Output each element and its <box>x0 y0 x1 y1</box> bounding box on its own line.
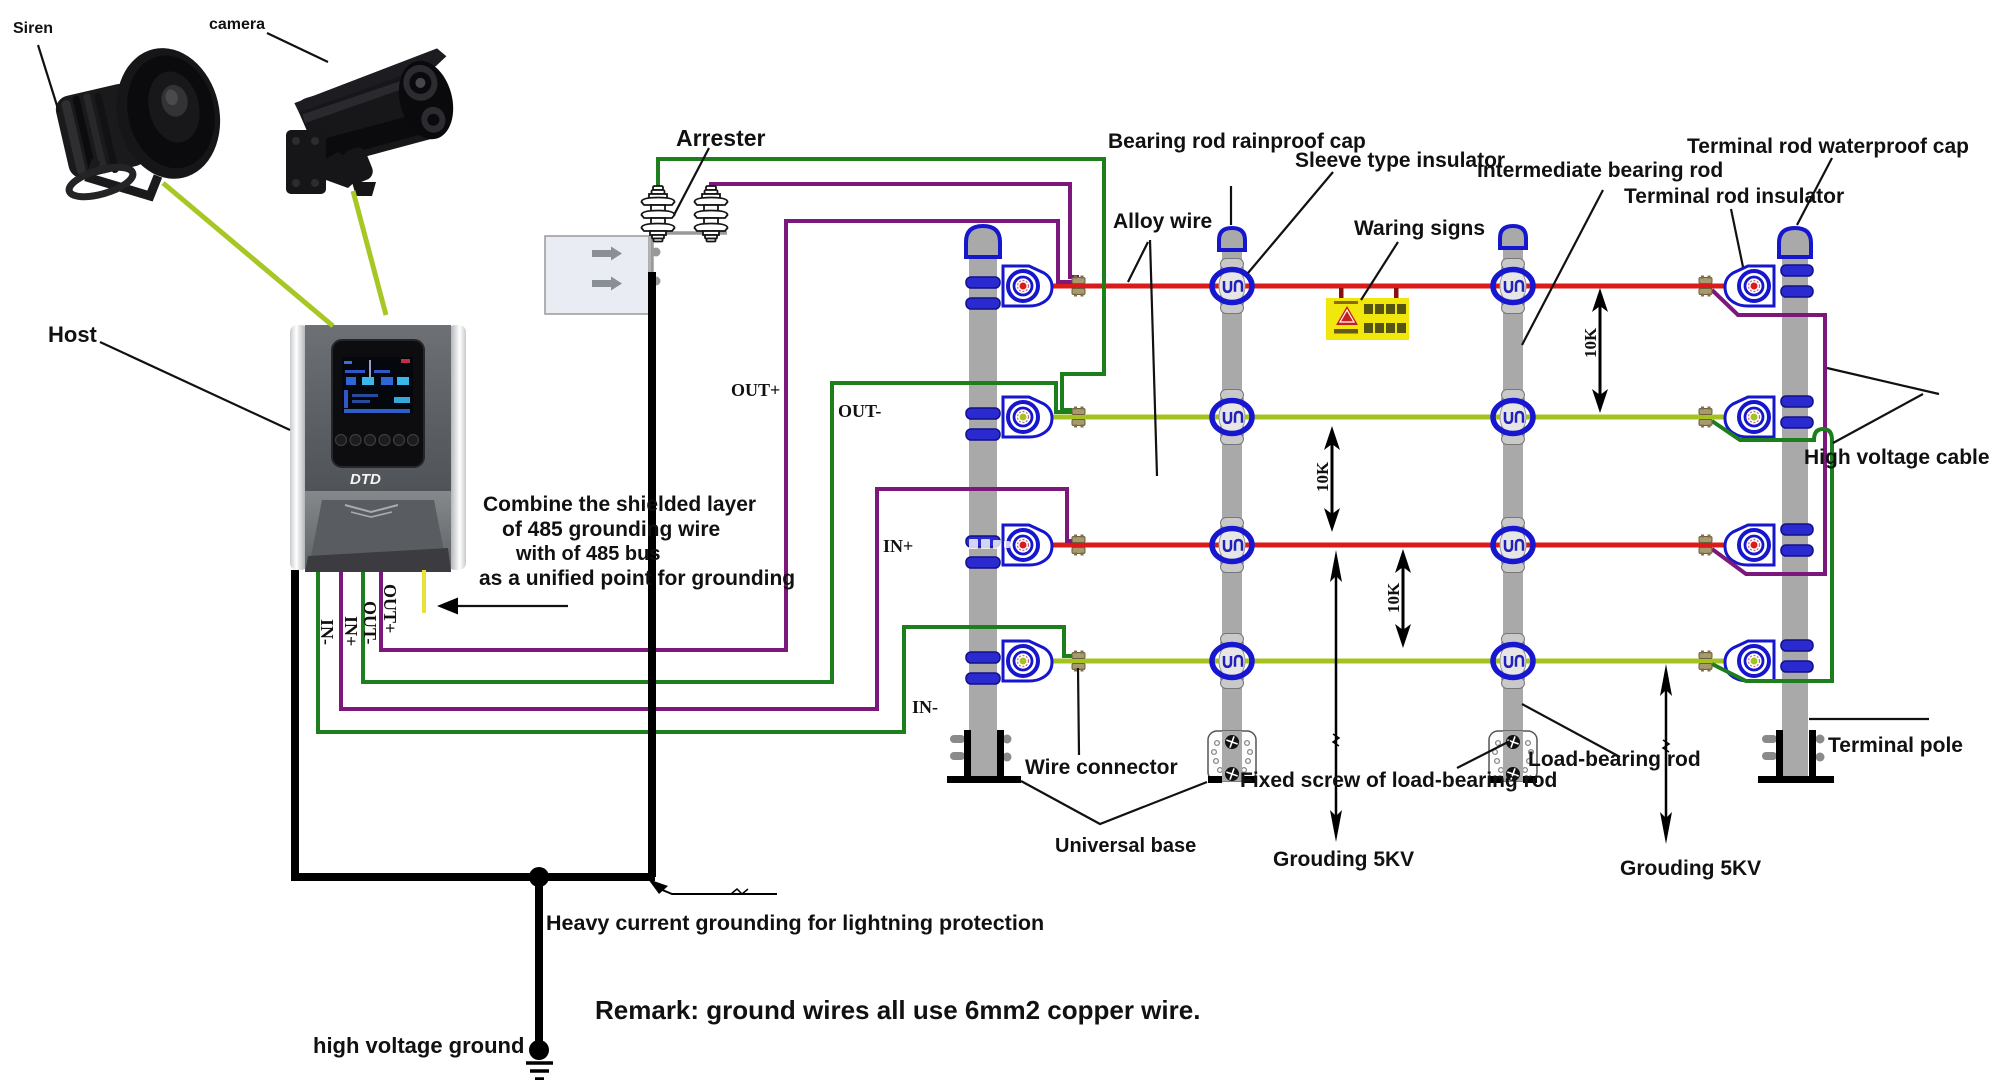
terminal pole 4 <box>1782 257 1808 777</box>
sleeve type insulator pole3 row2 <box>1493 390 1533 445</box>
alloy wire row 3 (red) <box>1021 543 1746 548</box>
terminal rod insulator pole1 row2 <box>1003 397 1052 437</box>
svg-text:Host: Host <box>48 322 98 347</box>
svg-text:Terminal rod insulator: Terminal rod insulator <box>1624 185 1844 208</box>
leader Arrester <box>674 148 709 215</box>
terminal rod insulator pole1 row3 <box>1003 525 1052 565</box>
svg-text:IN-: IN- <box>912 697 938 717</box>
svg-text:OUT-: OUT- <box>838 401 881 421</box>
leader camera <box>267 33 328 62</box>
leader Sleeve type insulator <box>1248 172 1333 273</box>
svg-text:high voltage ground: high voltage ground <box>313 1033 524 1058</box>
pole 4 waterproof cap <box>1779 228 1811 257</box>
sleeve type insulator pole2 row3 <box>1212 518 1252 573</box>
svg-text:Universal base: Universal base <box>1055 835 1196 857</box>
intermediate pole 3 <box>1503 248 1523 777</box>
pole1 clamp bars row1 <box>966 277 1000 684</box>
leader Load-bearing rod <box>1522 704 1620 757</box>
universal base pole4 <box>1758 730 1834 783</box>
wire IN+ purple from host <box>341 489 1074 709</box>
wire connector row3 pole1 <box>1072 535 1085 556</box>
svg-text:Remark: ground wires all use 6: Remark: ground wires all use 6mm2 copper… <box>595 995 1200 1025</box>
high voltage ground symbol <box>526 1040 553 1079</box>
pole 1 rainproof cap <box>966 226 1000 257</box>
sleeve type insulator pole3 row4 <box>1493 634 1533 689</box>
svg-text:Grouding 5KV: Grouding 5KV <box>1273 848 1414 871</box>
svg-text:Waring signs: Waring signs <box>1354 217 1485 240</box>
yellow 485 ground wire <box>422 570 426 613</box>
terminal rod insulator pole4 row3 <box>1725 525 1774 565</box>
load-bearing rod base plate pole2 <box>1208 731 1256 783</box>
high voltage cable purple pole4 <box>1712 290 1825 574</box>
leader Wire connector <box>1078 668 1079 755</box>
host arrow head <box>437 598 458 615</box>
alloy wire row 1 (red) <box>1021 284 1746 289</box>
leader Alloy wire a <box>1128 242 1148 282</box>
svg-text:Wire connector: Wire connector <box>1025 756 1178 779</box>
wire connector row4 pole1 <box>1072 651 1085 672</box>
svg-text:OUT-: OUT- <box>360 601 380 644</box>
svg-text:Alloy wire: Alloy wire <box>1113 210 1212 233</box>
svg-text:IN-: IN- <box>317 619 337 645</box>
leader Intermediate bearing rod <box>1522 190 1603 345</box>
wire connector row1 pole4 <box>1699 276 1712 297</box>
svg-text:Intermediate bearing rod: Intermediate bearing rod <box>1477 159 1723 182</box>
arrester mounting box <box>545 236 649 314</box>
sleeve type insulator pole3 row3 <box>1493 518 1533 573</box>
leader Terminal pole <box>1809 718 1929 720</box>
grounding corner arrow <box>648 879 777 894</box>
10K arrow row3-row4 <box>1384 549 1411 648</box>
terminal rod insulator pole4 row4 <box>1725 641 1774 681</box>
svg-text:Combine the shielded layer: Combine the shielded layer <box>483 493 756 516</box>
wire OUT- green from host to arrester and fence <box>363 383 1072 682</box>
wire OUT+ purple from host <box>381 221 1072 650</box>
wire arrester purple link <box>711 184 1079 277</box>
svg-text:IN+: IN+ <box>341 616 361 646</box>
terminal rod insulator pole4 row2 <box>1725 397 1774 437</box>
leader High voltage cable 1 <box>1827 368 1939 394</box>
high voltage cable green pole4 <box>1712 421 1832 681</box>
wire connector row1 pole1 <box>1072 276 1085 297</box>
camera signal wire <box>353 191 386 315</box>
arrester 2 <box>695 186 728 242</box>
wire arrester green link <box>658 159 1104 410</box>
leader Fixed screw <box>1457 741 1510 768</box>
svg-text:OUT+: OUT+ <box>380 584 400 633</box>
svg-text:Siren: Siren <box>13 20 53 37</box>
grounding arrow pole4 area <box>1660 664 1672 844</box>
svg-text:10K: 10K <box>1581 327 1600 358</box>
leader Siren <box>38 45 59 112</box>
intermediate pole 2 <box>1222 250 1242 777</box>
box arrow 1 <box>592 247 622 261</box>
host arrow line <box>448 605 568 607</box>
svg-text:Arrester: Arrester <box>676 125 766 151</box>
leader Terminal rod waterproof cap <box>1797 158 1832 225</box>
svg-text:10K: 10K <box>1313 461 1332 492</box>
heavy ground wire from host <box>295 570 655 877</box>
10K arrow row2-row3 <box>1313 426 1340 532</box>
leader Universal base <box>1021 781 1207 824</box>
heavy ground wire from arrester <box>648 272 656 877</box>
svg-text:Grouding 5KV: Grouding 5KV <box>1620 857 1761 880</box>
ground junction <box>529 867 549 887</box>
svg-text:Heavy current grounding for li: Heavy current grounding for lightning pr… <box>546 911 1044 935</box>
alloy wire row 4 (yellow-green) <box>1021 659 1742 664</box>
terminal rod insulator pole1 row4 <box>1003 641 1052 681</box>
wire IN- green from host <box>318 570 1074 732</box>
sleeve type insulator pole2 row4 <box>1212 634 1252 689</box>
svg-text:with of 485 bus: with of 485 bus <box>515 543 660 565</box>
gray link wire <box>651 233 727 276</box>
watermark on pole1 row3 <box>969 539 1010 549</box>
alloy wire row 2 (yellow-green) <box>1021 415 1742 420</box>
pole 2 rainproof cap <box>1219 228 1245 250</box>
leader Alloy wire b <box>1150 240 1157 476</box>
svg-text:IN+: IN+ <box>883 536 913 556</box>
10K arrow row1-row2 <box>1581 288 1608 413</box>
svg-text:Terminal rod waterproof cap: Terminal rod waterproof cap <box>1687 135 1969 158</box>
terminal rod insulator pole4 row1 <box>1725 266 1774 306</box>
grounding arrow pole2 area <box>1330 550 1342 842</box>
siren signal wire <box>163 183 333 326</box>
load-bearing rod base plate pole3 <box>1489 731 1537 783</box>
svg-text:as a unified point for groundi: as a unified point for grounding <box>479 567 795 590</box>
svg-text:camera: camera <box>209 16 265 33</box>
svg-text:High voltage cable: High voltage cable <box>1804 446 1990 469</box>
leader Terminal rod insulator <box>1731 209 1743 267</box>
sleeve type insulator pole2 row2 <box>1212 390 1252 445</box>
leader High voltage cable 2 <box>1833 394 1923 443</box>
svg-text:Terminal pole: Terminal pole <box>1828 734 1963 757</box>
svg-text:of 485 grounding wire: of 485 grounding wire <box>502 518 720 541</box>
leader Waring signs <box>1361 242 1398 300</box>
wire connector row2 pole4 <box>1699 407 1712 428</box>
svg-text:Fixed screw of load-bearing ro: Fixed screw of load-bearing rod <box>1240 769 1557 792</box>
terminal rod insulator pole1 row1 <box>1003 266 1052 306</box>
sleeve type insulator pole2 row1 <box>1212 259 1252 314</box>
box arrow 2 <box>592 277 622 291</box>
sleeve type insulator pole3 row1 <box>1493 259 1533 314</box>
leader Bearing rod rainproof cap <box>1230 186 1232 225</box>
svg-text:Sleeve type insulator: Sleeve type insulator <box>1295 149 1505 172</box>
bearing rod pole 1 (terminal pole left) <box>969 250 997 782</box>
arrester 1 <box>642 186 675 242</box>
pole4 clamp bars <box>1781 265 1813 672</box>
wire connector row4 pole4 <box>1699 651 1712 672</box>
pole 3 rainproof cap <box>1500 226 1526 248</box>
svg-text:OUT+: OUT+ <box>731 380 780 400</box>
universal base pole1 <box>947 730 1021 783</box>
svg-text:10K: 10K <box>1384 582 1403 613</box>
wire connector row2 pole1 <box>1072 407 1085 428</box>
leader Host <box>100 342 290 430</box>
svg-text:DTD: DTD <box>350 471 381 488</box>
svg-text:Load-bearing rod: Load-bearing rod <box>1528 748 1701 771</box>
wire connector row3 pole4 <box>1699 535 1712 556</box>
ground drop wire <box>535 877 543 1050</box>
